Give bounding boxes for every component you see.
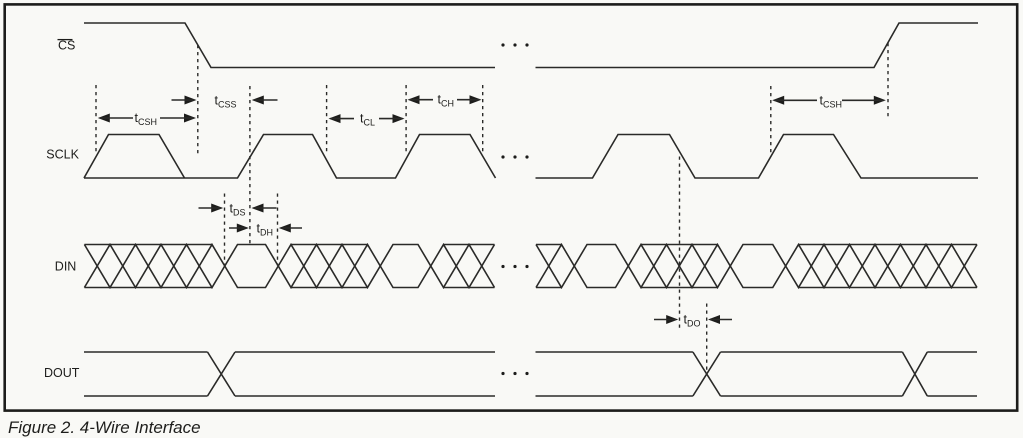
signal DIN left group zigzag A (84, 245, 494, 288)
dashed guide SCLK fall 3 (tCH right bound) (482, 85, 484, 155)
dashed guide SCLK rise 3 (tCL/tCH bound) (405, 85, 407, 155)
signal DIN right group rails (536, 245, 977, 288)
dashed guide CS falling edge (tCSS left bound) (197, 45, 199, 154)
dashed guide SCLK fall right (tDO left bound) (679, 157, 681, 332)
dashed guide SCLK rise 2 (tCSS right bound / tDS-tDH center) (249, 86, 251, 244)
signal SCLK baseline and pulses left (84, 135, 496, 179)
ellipsis dots DIN row (501, 265, 504, 268)
dashed guide tDH right bound (277, 194, 279, 266)
dimension arrow tCSH left pair (98, 114, 110, 123)
signal CS waveform right (low, rising edge, high) (536, 23, 979, 68)
signal DIN right group zigzag B (536, 245, 977, 288)
dashed guide SCLK fall 2 (tCL left bound) (326, 85, 328, 155)
dimension arrow tDS outside pair (211, 204, 223, 213)
dashed guide CS rising edge (tCSH right bound) (887, 43, 889, 118)
dimension arrow tCSH right pair (772, 96, 784, 105)
dashed guide SCLK rise 1 (tCSH left bound) (95, 85, 97, 154)
signal SCLK pulses right (536, 135, 979, 179)
svg-text:CS: CS (58, 39, 75, 53)
dimension arrow tCSS outside pair (185, 96, 197, 105)
ellipsis dots CS row (501, 43, 504, 46)
dimension arrow tDH outside pair (237, 224, 249, 233)
dashed guide DOUT transition (tDO right bound) (706, 304, 708, 372)
dimension arrow tCH pair (408, 95, 420, 104)
dimension arrow tDO outside pair (666, 315, 678, 324)
ellipsis dots DOUT row (501, 372, 504, 375)
svg-text:Figure 2. 4-Wire Interface: Figure 2. 4-Wire Interface (8, 418, 201, 437)
svg-text:DOUT: DOUT (44, 366, 80, 380)
svg-text:SCLK: SCLK (46, 147, 79, 161)
signal DIN left group zigzag B (84, 245, 494, 288)
signal DOUT left group with crossover (84, 352, 495, 396)
dashed guide tDS left bound (224, 194, 226, 266)
signal DIN left group rails (84, 245, 494, 288)
ellipsis dots SCLK row (501, 155, 504, 158)
signal SCLK first pulse trapezoid (84, 135, 185, 179)
svg-text:DIN: DIN (55, 259, 77, 273)
signal DIN right group zigzag A (536, 245, 977, 288)
signal DOUT right group with crossovers (536, 352, 978, 396)
dashed guide SCLK rise right (tCSH right left bound) (770, 86, 772, 156)
dimension arrow tCL pair (329, 114, 341, 123)
signal CS waveform left (high, falling edge, low) (84, 23, 495, 68)
